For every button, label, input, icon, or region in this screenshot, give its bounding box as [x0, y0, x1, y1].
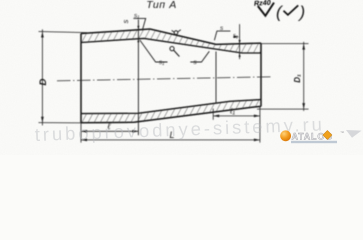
- watermark truboprovodnye-sistemy.ru: [34, 113, 325, 145]
- text group: [38, 0, 305, 140]
- dimension D1: arrowheads: [302, 44, 305, 109]
- svg-text:Rz40: Rz40: [254, 0, 271, 8]
- logo: orange diamond: [323, 130, 332, 139]
- outline: bottom outer surface: [81, 106, 261, 122]
- svg-text:™: ™: [340, 130, 344, 135]
- svg-text:Тип А: Тип А: [146, 0, 177, 11]
- extension line l1 left: [212, 109, 214, 120]
- dimension l1: line and arrows: [213, 115, 260, 117]
- bottom wall section (hatched): [81, 100, 261, 123]
- extension line left (l and L): [80, 123, 82, 143]
- weld mark on inner cone surface: [170, 47, 174, 51]
- dimension l: line and arrows: [81, 130, 138, 132]
- dimension s arrows (wall thickness at big end): [137, 26, 139, 42]
- small arrow pointing at s1 line: [234, 36, 240, 38]
- outline: bottom inner surface: [81, 100, 261, 114]
- junction line cone / small end: [215, 52, 217, 103]
- logo: orange ball: [280, 130, 291, 141]
- svg-text:s₁: s₁: [159, 59, 164, 66]
- junction line large end / cone (also s-dimension and l extension): [137, 20, 139, 136]
- leader s under cone: bar and tail: [190, 51, 209, 62]
- dimension D: arrowheads: [41, 32, 44, 123]
- svg-text:s: s: [121, 19, 130, 23]
- dimension s1 (small end wall): line and arrows: [239, 24, 241, 59]
- dimension D1: dimension line: [303, 42, 305, 111]
- checkmark in parentheses: [284, 5, 299, 15]
- svg-text:D: D: [38, 78, 49, 85]
- scan noise: [0, 0, 363, 155]
- svg-text:s₁: s₁: [134, 13, 139, 20]
- roughness symbol Rz40: [258, 3, 274, 16]
- top wall section (hatched): [81, 29, 261, 53]
- leader s1 top-left: bar and tail: [133, 18, 145, 30]
- extension line right end (l1 and L): [259, 107, 261, 143]
- outline: top inner surface: [81, 38, 261, 53]
- weld mark on outer cone surface: [174, 31, 178, 35]
- svg-text:D₁: D₁: [293, 74, 302, 83]
- svg-text:): ): [298, 3, 306, 22]
- logo: tagline strip: [291, 141, 337, 143]
- leader s1 under cone: tail and bar: [140, 40, 168, 62]
- outline: top outer surface: [81, 29, 261, 44]
- dimension L: line and arrows: [81, 139, 260, 141]
- dimension D: dimension line: [41, 29, 43, 125]
- dimension D1: extension lines: [253, 44, 309, 110]
- leader s top-right: bar and tail: [214, 31, 230, 40]
- dimension D: extension lines: [39, 32, 88, 123]
- logo: gray swoosh right: [346, 130, 362, 138]
- outline: small end face: [260, 43, 262, 106]
- centerline: [57, 77, 272, 81]
- svg-text:ℓ₁: ℓ₁: [229, 107, 236, 116]
- outline: large end face: [80, 34, 82, 124]
- svg-text:s₁: s₁: [233, 33, 238, 39]
